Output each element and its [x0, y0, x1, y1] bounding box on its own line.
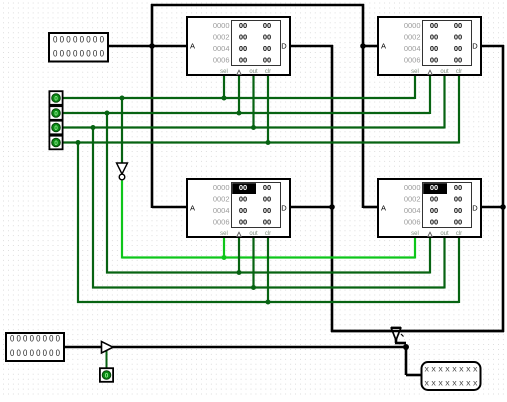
svg-text:out: out	[440, 231, 449, 237]
svg-text:0: 0	[54, 111, 58, 118]
svg-text:0004: 0004	[213, 44, 230, 53]
svg-text:00: 00	[430, 183, 438, 192]
svg-text:00: 00	[239, 33, 247, 42]
svg-text:0: 0	[54, 96, 58, 103]
svg-text:0002: 0002	[404, 33, 421, 42]
svg-text:0002: 0002	[213, 195, 230, 204]
svg-text:00: 00	[454, 195, 462, 204]
svg-text:0000: 0000	[404, 183, 421, 192]
svg-text:00: 00	[454, 206, 462, 215]
svg-text:00: 00	[239, 206, 247, 215]
svg-text:00: 00	[263, 44, 271, 53]
svg-text:00: 00	[430, 206, 438, 215]
svg-text:00: 00	[430, 195, 438, 204]
svg-text:00: 00	[430, 55, 438, 64]
svg-text:00: 00	[263, 183, 271, 192]
svg-text:clr: clr	[265, 69, 271, 75]
svg-text:00: 00	[430, 33, 438, 42]
svg-text:0 0 0 0 0 0 0 0: 0 0 0 0 0 0 0 0	[53, 35, 104, 45]
svg-text:0: 0	[54, 140, 58, 147]
svg-text:00: 00	[263, 195, 271, 204]
svg-text:00: 00	[263, 21, 271, 30]
svg-text:0000: 0000	[404, 21, 421, 30]
svg-text:A: A	[381, 42, 386, 51]
svg-text:D: D	[472, 42, 478, 51]
svg-text:A: A	[381, 204, 386, 213]
svg-text:sel: sel	[411, 69, 419, 75]
svg-text:0004: 0004	[213, 206, 230, 215]
svg-text:A: A	[190, 204, 195, 213]
svg-text:00: 00	[263, 33, 271, 42]
svg-text:D: D	[472, 204, 478, 213]
svg-text:0002: 0002	[404, 195, 421, 204]
svg-text:0002: 0002	[213, 33, 230, 42]
svg-text:sel: sel	[220, 69, 228, 75]
svg-text:00: 00	[430, 21, 438, 30]
svg-text:00: 00	[454, 21, 462, 30]
svg-text:x x x x x x x x: x x x x x x x x	[425, 379, 478, 388]
svg-text:0006: 0006	[404, 55, 421, 64]
svg-text:00: 00	[430, 217, 438, 226]
svg-text:00: 00	[239, 21, 247, 30]
svg-text:0006: 0006	[404, 217, 421, 226]
svg-text:out: out	[249, 69, 258, 75]
svg-text:00: 00	[239, 217, 247, 226]
svg-text:00: 00	[239, 195, 247, 204]
svg-text:out: out	[249, 231, 258, 237]
svg-text:00: 00	[454, 33, 462, 42]
svg-text:00: 00	[263, 217, 271, 226]
svg-text:0006: 0006	[213, 217, 230, 226]
svg-text:00: 00	[430, 44, 438, 53]
svg-text:0000: 0000	[213, 21, 230, 30]
svg-text:clr: clr	[265, 231, 271, 237]
svg-text:0006: 0006	[213, 55, 230, 64]
svg-text:0 0 0 0 0 0 0 0: 0 0 0 0 0 0 0 0	[10, 348, 60, 358]
svg-text:clr: clr	[456, 69, 462, 75]
svg-text:0004: 0004	[404, 206, 421, 215]
svg-text:00: 00	[454, 55, 462, 64]
svg-text:D: D	[281, 42, 287, 51]
svg-text:00: 00	[454, 44, 462, 53]
svg-text:0004: 0004	[404, 44, 421, 53]
svg-text:0: 0	[54, 125, 58, 132]
svg-text:0 0 0 0 0 0 0 0: 0 0 0 0 0 0 0 0	[10, 334, 60, 344]
svg-text:0000: 0000	[213, 183, 230, 192]
svg-text:00: 00	[239, 183, 247, 192]
svg-text:A: A	[190, 42, 195, 51]
svg-text:clr: clr	[456, 231, 462, 237]
svg-text:x x x x x x x x: x x x x x x x x	[425, 365, 478, 374]
svg-text:sel: sel	[411, 231, 419, 237]
svg-text:D: D	[281, 204, 287, 213]
svg-text:00: 00	[239, 55, 247, 64]
svg-text:00: 00	[454, 183, 462, 192]
svg-text:0: 0	[105, 373, 109, 380]
svg-text:00: 00	[263, 55, 271, 64]
svg-text:sel: sel	[220, 231, 228, 237]
svg-text:00: 00	[454, 217, 462, 226]
svg-text:out: out	[440, 69, 449, 75]
svg-text:00: 00	[263, 206, 271, 215]
svg-text:0 0 0 0 0 0 0 0: 0 0 0 0 0 0 0 0	[53, 49, 104, 59]
svg-text:00: 00	[239, 44, 247, 53]
